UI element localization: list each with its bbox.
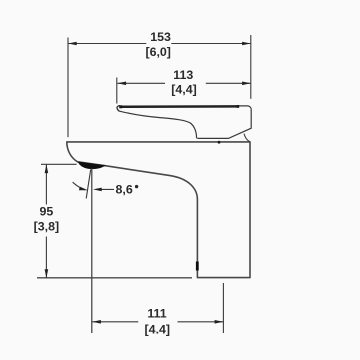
svg-text:[6,0]: [6,0] — [145, 45, 170, 59]
aerator (dark) — [78, 162, 104, 168]
dark tick on column left edge — [196, 262, 199, 271]
svg-text:[3,8]: [3,8] — [34, 220, 59, 234]
dim 95: top extension line — [41, 163, 77, 165]
dim 95: dimension line — [45, 164, 47, 278]
dim 111: dimension line — [92, 321, 223, 323]
dim 95: top arrow — [45, 164, 49, 173]
svg-text:153: 153 — [150, 30, 171, 44]
angle arc with arrowhead — [73, 182, 86, 190]
svg-text:95: 95 — [40, 205, 54, 219]
dim 95: bottom extension line — [37, 277, 192, 279]
dim 113: left arrow — [117, 82, 126, 86]
faucet spout and body outline — [67, 142, 250, 278]
dim 153: left arrow — [68, 42, 77, 46]
svg-text:8,6: 8,6 — [116, 183, 133, 197]
dim 113: left extension line — [116, 78, 118, 104]
lever end dot — [237, 105, 240, 108]
angle leader arrow — [96, 188, 114, 190]
dim 153: dimension line — [68, 43, 251, 45]
dim 153: right extension line — [250, 35, 252, 99]
dim 113: dimension line — [117, 82, 250, 84]
tilted stream line 8.6deg — [86, 170, 91, 199]
svg-text:[4,4]: [4,4] — [171, 82, 196, 96]
dim 153: left extension line — [67, 38, 69, 138]
dim 111: right extension line — [222, 283, 224, 333]
stream centerline (also 111 left extension) — [91, 168, 93, 333]
svg-text:[4.4]: [4.4] — [145, 323, 170, 337]
lever top (thick) — [120, 105, 240, 108]
svg-text:113: 113 — [173, 68, 193, 82]
dim 153: right arrow — [242, 42, 251, 46]
svg-text:111: 111 — [147, 307, 166, 321]
dim 95: bottom arrow — [45, 269, 49, 278]
neck shoulder and chamfer — [197, 106, 251, 138]
lever tip hook — [117, 106, 120, 112]
dot on spout top line — [218, 141, 221, 144]
body top-right arc — [244, 134, 250, 142]
dim 111: left arrow — [92, 320, 101, 324]
dim 113: right arrow — [242, 82, 251, 86]
dim 111: right arrow — [215, 320, 224, 324]
lever underside — [120, 111, 197, 138]
